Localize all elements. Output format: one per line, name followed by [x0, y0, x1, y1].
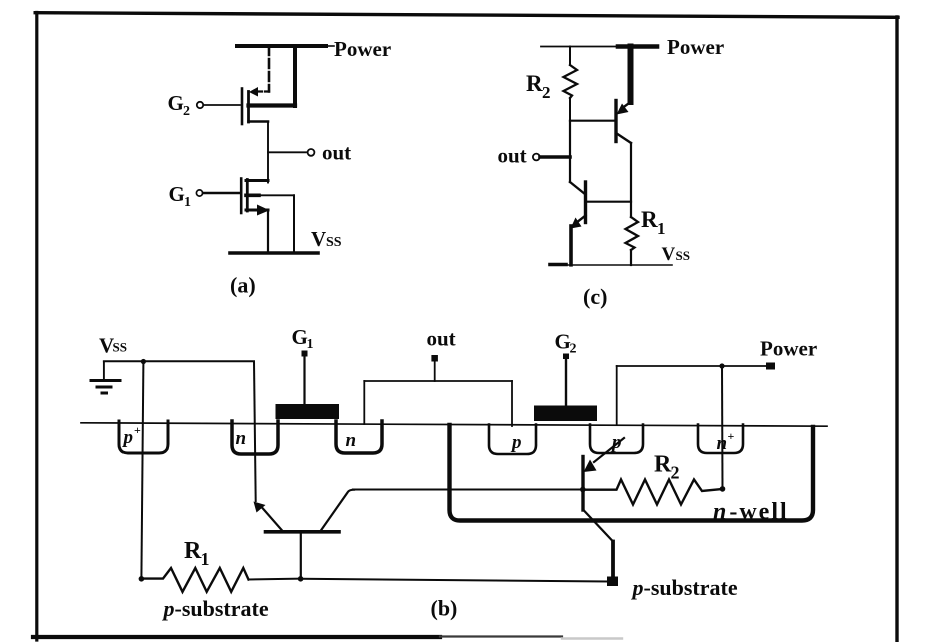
label Power (a) — [334, 37, 391, 61]
label R2 (c) — [526, 71, 551, 102]
svg-text:Power: Power — [334, 37, 391, 61]
label R2 (b) — [654, 452, 680, 483]
svg-text:2: 2 — [183, 104, 190, 119]
Vss rail (c) — [550, 264, 672, 267]
label G1 — [169, 182, 192, 210]
wire PNP collector down (c) — [630, 143, 632, 217]
caption (c) — [583, 284, 607, 309]
wire NMOS source to Vss — [267, 210, 269, 253]
resistor R1 (b) — [141, 568, 300, 592]
resistor R2 (c) — [564, 47, 578, 122]
svg-text:+: + — [134, 423, 141, 437]
node junction Power/n+ — [719, 363, 724, 368]
wire NPN collector to PNP base — [353, 489, 582, 491]
svg-text:p-substrate: p-substrate — [162, 596, 269, 621]
svg-text:R: R — [526, 71, 543, 96]
wire PMOS source to Power — [268, 46, 271, 92]
wire PMOS bulk to Power — [293, 46, 297, 106]
svg-text:n: n — [346, 430, 357, 451]
power rail (c) — [541, 46, 657, 48]
wire out tap (a) — [268, 151, 306, 153]
diffusion p PMOS source — [590, 425, 643, 454]
svg-text:SS: SS — [113, 340, 127, 355]
label G2 — [168, 91, 191, 119]
svg-text:G: G — [168, 91, 184, 115]
label R1 (c) — [641, 207, 666, 238]
node junction R1 left — [139, 576, 145, 582]
label p+ — [122, 423, 142, 448]
resistor R1 (c) — [626, 217, 639, 265]
wire out (b) — [364, 355, 512, 426]
svg-text:G: G — [555, 330, 571, 354]
svg-text:n: n — [236, 428, 247, 449]
node junction Vss/p+ — [141, 359, 146, 364]
svg-text:1: 1 — [184, 195, 191, 210]
svg-text:SS: SS — [676, 248, 690, 263]
svg-text:2: 2 — [542, 83, 551, 102]
svg-text:R: R — [641, 207, 658, 232]
node junction R2/n+ — [720, 486, 726, 492]
svg-text:R: R — [654, 452, 672, 478]
transistor NMOS (a) — [241, 179, 294, 216]
node junction PNP base — [580, 487, 586, 493]
wire p+ contact down to R1 — [141, 362, 143, 579]
transistor NPN Q1 (c) — [570, 182, 631, 229]
Vss rail (a) — [230, 251, 318, 255]
label p (drain) — [510, 432, 522, 453]
svg-text:Power: Power — [760, 337, 817, 361]
wire R2 to PNP base — [570, 120, 616, 122]
label n (source) — [236, 428, 247, 449]
node junction NPN base / substrate wire — [298, 576, 304, 582]
label out (a) — [322, 141, 351, 165]
svg-text:+: + — [728, 429, 735, 443]
wire p-substrate — [301, 579, 608, 582]
wire G2 to PMOS gate — [204, 104, 241, 106]
resistor R2 (b) — [584, 480, 723, 505]
svg-text:(a): (a) — [230, 273, 256, 298]
svg-text:out: out — [322, 141, 351, 165]
label Vss (b) — [99, 334, 127, 358]
wire Vss (b) — [104, 360, 254, 362]
transistor PNP Q2 (b) — [583, 438, 624, 581]
svg-text:out: out — [498, 144, 527, 168]
node out terminal (a) — [308, 149, 315, 156]
label Power (b) — [760, 337, 817, 361]
svg-text:G: G — [169, 182, 185, 206]
svg-text:V: V — [311, 227, 326, 251]
svg-text:2: 2 — [671, 463, 680, 483]
node G2 terminal — [197, 102, 203, 108]
wire out (c) — [540, 155, 570, 159]
label n-well — [713, 499, 789, 525]
label Power (c) — [667, 35, 724, 59]
svg-text:R: R — [184, 538, 202, 564]
label out (c) — [498, 144, 527, 168]
transistor PMOS (a) — [242, 87, 295, 124]
label p-substrate (right) — [631, 575, 738, 600]
transistor PNP Q2 (c) — [616, 47, 631, 144]
svg-text:out: out — [427, 327, 456, 351]
caption (a) — [230, 273, 256, 298]
label p-substrate (left) — [162, 596, 269, 621]
svg-text:1: 1 — [307, 337, 314, 352]
label out (b) — [427, 327, 456, 351]
label n (drain) — [346, 430, 357, 451]
label G1 (b) — [292, 325, 314, 352]
diffusion n+ well contact — [698, 425, 743, 454]
wire NMOS bulk to Vss — [293, 195, 295, 253]
label n+ — [717, 429, 735, 454]
svg-text:1: 1 — [657, 219, 666, 238]
ground — [91, 362, 120, 394]
wire left rail (c) — [569, 121, 571, 182]
power rail (a) — [237, 44, 334, 48]
svg-text:2: 2 — [570, 342, 577, 357]
svg-text:Power: Power — [667, 35, 724, 59]
diffusion p+ substrate contact — [119, 421, 168, 453]
wire n source down to NPN emitter — [254, 362, 256, 502]
svg-text:p-substrate: p-substrate — [631, 575, 738, 600]
gate G2 (b) — [534, 354, 597, 422]
diffusion p PMOS drain — [489, 425, 536, 455]
surface line — [81, 423, 827, 426]
svg-text:p: p — [122, 427, 134, 448]
gate G1 (b) — [276, 351, 340, 420]
svg-text:G: G — [292, 325, 308, 349]
label p (source) — [610, 432, 622, 453]
wire Power (b) — [617, 363, 775, 489]
svg-text:SS: SS — [326, 235, 342, 250]
wire PMOS drain to NMOS drain — [267, 122, 269, 183]
svg-text:(b): (b) — [431, 596, 458, 621]
diffusion n NMOS drain — [336, 421, 382, 453]
wire NPN emitter to Vss (c) — [569, 226, 573, 265]
label R1 (b) — [184, 538, 210, 569]
svg-text:n-well: n-well — [713, 499, 789, 525]
svg-text:p: p — [510, 432, 522, 453]
label Vss (a) — [311, 227, 342, 251]
node G1 terminal — [196, 190, 202, 196]
node p-substrate terminal — [607, 577, 618, 587]
wire G1 to NMOS gate — [203, 192, 239, 194]
svg-text:V: V — [662, 244, 676, 265]
svg-text:(c): (c) — [583, 284, 607, 309]
caption (b) — [431, 596, 458, 621]
label G2 (b) — [555, 330, 577, 357]
transistor NPN Q1 (b) — [254, 490, 355, 579]
label Vss (c) — [662, 244, 690, 265]
diffusion n NMOS source — [232, 421, 278, 454]
n-well — [450, 425, 814, 521]
node out terminal (c) — [533, 154, 540, 161]
svg-text:1: 1 — [201, 549, 210, 569]
